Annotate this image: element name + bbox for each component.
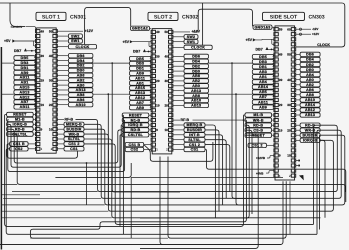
wire WR-B stub CN303: [296, 129, 301, 131]
label AB11 CN303 left: [252, 100, 273, 104]
svg-text:CN301: CN301: [70, 14, 86, 20]
wire AB4 stub CN303: [273, 80, 274, 82]
wire CN303 bottom pin drop: [289, 181, 291, 234]
wire DB6 stub CN301: [57, 55, 68, 57]
svg-text:DB5: DB5: [21, 56, 29, 60]
svg-text:CS1: CS1: [191, 148, 199, 152]
svg-text:40: 40: [287, 78, 291, 82]
wire bus tap x236: [236, 94, 270, 205]
svg-text:AB6: AB6: [306, 88, 314, 92]
wire AB12 stub CN303: [296, 109, 301, 111]
wire AB13 stub CN302: [173, 104, 184, 106]
label AB9 CN302 left: [130, 105, 152, 109]
wire SW1 stub CN302: [173, 41, 184, 43]
svg-text:AB11: AB11: [20, 76, 30, 80]
label AB13 CN302 right: [184, 89, 209, 93]
svg-text:DB4: DB4: [192, 60, 200, 64]
svg-text:SW2: SW2: [187, 35, 196, 39]
svg-text:AB13: AB13: [76, 88, 86, 92]
wire BUSDIR stub CN301: [57, 128, 64, 130]
label SW1 CN301: [68, 39, 82, 43]
wire AB0 stub CN303: [296, 79, 301, 81]
arrow marker CN303 bottom: [299, 175, 304, 180]
label DB2 CN303 right: [300, 62, 320, 66]
wire AB9 stub CN301: [34, 70, 35, 72]
junction DB7 CN302: [148, 51, 150, 53]
circle -12V CN303: [299, 28, 301, 30]
junction bus tap x236: [235, 93, 237, 95]
wire CS2 stub CN302: [144, 149, 152, 151]
wire +12V CN301: [57, 30, 83, 32]
wire DB6 stub CN303: [296, 54, 301, 56]
label CS1 2 CN301 right: [64, 142, 84, 146]
wire CN303 bottom pin drop2: [0, 181, 283, 244]
wire AB13 stub CN303: [296, 114, 301, 116]
svg-text:AB12: AB12: [135, 96, 145, 100]
wire AB14 stub CN303: [273, 85, 274, 87]
wire AB15 stub CN302: [150, 86, 151, 88]
label DB4 CN303 right: [300, 57, 320, 61]
svg-text:AB0: AB0: [192, 84, 200, 88]
svg-text:DB7: DB7: [14, 49, 21, 53]
wire AB0 stub CN302: [173, 85, 184, 87]
junction DB7 CN301: [31, 50, 33, 52]
svg-text:WR-B: WR-B: [253, 118, 264, 122]
svg-text:AB10: AB10: [305, 98, 315, 102]
wire CN302 INT drop: [205, 140, 226, 199]
wire AB0 stub CN301: [57, 84, 68, 86]
wire CN303 M1 drop: [244, 114, 246, 116]
wire AB10 stub CN303: [296, 99, 301, 101]
wire CN303 BUSDIR right drop: [319, 135, 322, 229]
svg-text:CS2: CS2: [131, 148, 139, 152]
label DB2 CN302 right: [184, 64, 209, 68]
wire CS1 B stub CN301: [28, 143, 35, 145]
wire BUSDIR stub CN303: [296, 134, 301, 136]
wire RD bus: [7, 129, 123, 163]
wire SOUNDIN to CN301: [26, 27, 36, 30]
label RESET CN303 left: [245, 133, 272, 137]
svg-text:AB7: AB7: [21, 100, 29, 104]
svg-text:DB4: DB4: [306, 58, 314, 62]
svg-text:50: 50: [49, 29, 53, 33]
wire bus tap x112: [112, 63, 180, 192]
wire CSLTSL bus: [7, 134, 346, 192]
label AB9 CN302 left: [130, 71, 152, 75]
svg-text:RESET: RESET: [13, 113, 27, 117]
label AB2 CN303 right: [300, 83, 320, 87]
svg-text:SW1: SW1: [187, 40, 196, 44]
wire bus tap x232: [232, 63, 280, 198]
header SLOT 2 CN302: [148, 12, 178, 20]
label DB4 CN301 right: [68, 58, 93, 62]
svg-text:SLTSL: SLTSL: [68, 137, 81, 141]
svg-text:59: 59: [279, 27, 283, 31]
svg-text:RD-B: RD-B: [131, 128, 141, 132]
label DB3 CN303 left: [252, 60, 273, 64]
wire AB8 stub CN302: [173, 75, 184, 77]
svg-text:SW2: SW2: [71, 34, 80, 38]
svg-text:AB2: AB2: [192, 79, 200, 83]
svg-text:1: 1: [156, 148, 158, 152]
label RD-B CN302 left: [122, 128, 149, 132]
svg-text:AB0: AB0: [306, 78, 314, 82]
svg-text:CS1 B: CS1 B: [13, 142, 25, 146]
svg-text:AB13: AB13: [135, 91, 145, 95]
svg-text:AB2: AB2: [77, 78, 85, 82]
wire DB2 stub CN303: [296, 64, 301, 66]
svg-text:IORQ-B: IORQ-B: [13, 123, 28, 127]
wire vert x131 down: [130, 177, 132, 238]
svg-text:+5VB: +5VB: [256, 171, 263, 175]
svg-text:+5V: +5V: [246, 38, 253, 42]
svg-text:AB13: AB13: [19, 90, 29, 94]
svg-text:2: 2: [166, 148, 168, 152]
svg-text:AB9: AB9: [259, 105, 267, 109]
label SW2 CN301: [68, 34, 82, 38]
header SLOT 1 CN301: [36, 12, 66, 20]
svg-text:CS1 2: CS1 2: [252, 144, 263, 148]
junction x86 on 163: [86, 162, 88, 164]
wire bus link mid y63: [93, 62, 130, 64]
wire WAIT bus: [84, 124, 341, 198]
label AB6 CN303 right: [300, 88, 320, 92]
wire WR-B stub CN303: [272, 119, 274, 121]
wire M1-B stub CN303: [272, 114, 274, 116]
label DB2 CN301 right: [68, 63, 93, 67]
wire DB6 stub CN302: [173, 55, 184, 57]
wire CS-B stub CN303: [272, 129, 274, 131]
label M1-B CN302 left: [122, 118, 149, 122]
svg-text:AB9: AB9: [136, 106, 144, 110]
label AB8 CN302 right: [184, 74, 209, 78]
label CS1 B CN301 left: [10, 142, 29, 146]
arrow +5V CN303: [253, 38, 256, 41]
wire bus h191 left: [12, 191, 98, 193]
label MERQ-B CN302 right: [184, 123, 205, 127]
svg-text:DB7: DB7: [256, 48, 263, 52]
wire DB0 stub CN303: [296, 69, 301, 71]
svg-text:AB9: AB9: [21, 71, 29, 75]
wire +12V CN302: [173, 31, 190, 33]
label AB8 CN301 right: [68, 93, 93, 97]
wire WR-B stub CN301: [57, 133, 64, 135]
label AB11 CN302 left: [130, 76, 152, 80]
label IORQ-B CN301 left: [7, 122, 34, 126]
junction bus tap x232: [231, 62, 233, 64]
svg-text:+5V: +5V: [123, 40, 130, 44]
wire CS1 2 stub CN302: [173, 144, 184, 146]
wire DB5 stub CN302: [150, 56, 151, 58]
label RD-B CN303 right: [300, 123, 320, 127]
wire below CN302 v2: [168, 157, 286, 239]
svg-text:AB8: AB8: [192, 74, 200, 78]
svg-text:2: 2: [289, 174, 291, 178]
wire bus link left y94: [1, 93, 14, 95]
arrow DB7 CN303: [265, 47, 268, 50]
wire AB13 stub CN301: [57, 89, 68, 91]
wire +12VB to CN303: [267, 155, 274, 158]
label M1-B CN303 left: [245, 113, 272, 117]
svg-text:RD-B: RD-B: [15, 127, 25, 131]
wire AB9 stub CN302: [150, 105, 151, 107]
wire CLOCK stub CN301: [57, 46, 68, 48]
wire AB13 stub CN302: [150, 91, 151, 93]
svg-text:39: 39: [156, 55, 160, 59]
svg-text:AB1: AB1: [136, 81, 144, 85]
wire AB2 stub CN303: [296, 84, 301, 86]
svg-text:CS2: CS2: [15, 147, 23, 151]
label RD-B CN303 left: [245, 123, 272, 127]
wire DB5 stub CN303: [273, 55, 274, 57]
label AB4 CN303 left: [252, 80, 273, 84]
svg-text:DB2: DB2: [306, 63, 314, 67]
label DB5 CN302 left: [130, 56, 152, 60]
wire CN303 IORQ right drop: [320, 140, 325, 218]
svg-text:40: 40: [49, 54, 53, 58]
junction bus tap x112: [111, 62, 113, 64]
wire bus h244 left: [0, 244, 160, 246]
wire MERQ-B stub CN301: [57, 123, 64, 125]
wire bus h191 left2: [1, 194, 40, 196]
label AB13 CN301 left: [14, 90, 36, 94]
label AB15 CN302 left: [130, 86, 152, 90]
svg-text:CN302: CN302: [182, 14, 198, 20]
label AB11 CN301 left: [14, 105, 36, 109]
wire WR bus: [84, 134, 333, 211]
wire RD-B stub CN301: [33, 128, 35, 130]
svg-text:DB1: DB1: [259, 65, 267, 69]
label BUSDIR CN301 right: [64, 127, 84, 131]
wire DB4 stub CN303: [296, 59, 301, 61]
wire CN303 RD drop: [140, 125, 249, 218]
svg-text:SLTSL: SLTSL: [188, 138, 201, 142]
svg-text:AB1: AB1: [259, 75, 267, 79]
svg-text:SIDE SLOT: SIDE SLOT: [270, 14, 298, 20]
svg-text:CSLTSL: CSLTSL: [128, 133, 144, 137]
svg-text:DB3: DB3: [259, 60, 267, 64]
wire DB4 stub CN302: [173, 60, 184, 62]
wire RESET stub CN302: [149, 114, 151, 116]
svg-text:+12V: +12V: [312, 32, 319, 36]
wire RESET stub CN303: [272, 134, 274, 136]
wire AB10 stub CN302: [173, 100, 184, 102]
label SLTSL CN301 right: [64, 137, 84, 141]
wire DB2 stub CN302: [173, 65, 184, 67]
label AB4 CN303 right: [300, 72, 320, 76]
arrow +5V CN301: [12, 39, 15, 42]
svg-text:9: 9: [156, 128, 158, 132]
label CS-B CN303 left: [245, 128, 272, 132]
svg-text:19: 19: [41, 103, 45, 107]
svg-text:SW1: SW1: [71, 39, 80, 43]
wire RF-B stub CN301: [57, 118, 64, 120]
label AB2 CN301 right: [68, 78, 93, 82]
label AB15 CN301 left: [14, 85, 36, 89]
wire top bus soundin: [0, 3, 345, 47]
svg-text:DB3: DB3: [136, 62, 144, 66]
svg-text:AB15: AB15: [19, 86, 29, 90]
wire bus link mid y94: [93, 93, 130, 95]
wire SLTSL drop: [84, 144, 314, 225]
wire AB3 stub CN303: [273, 70, 274, 72]
label SW1 CN302: [184, 40, 198, 44]
label AB0 CN301 right: [68, 83, 93, 87]
svg-text:AB12: AB12: [305, 108, 315, 112]
svg-text:AB11: AB11: [258, 100, 268, 104]
wire AB5 stub CN303: [273, 90, 274, 92]
label DB5 CN303 left: [252, 55, 273, 59]
wire RESET bus: [5, 115, 245, 227]
svg-text:MERQ-B: MERQ-B: [66, 123, 82, 127]
wire AB9 stub CN303: [273, 105, 274, 107]
wire bus tap x108: [108, 94, 160, 205]
svg-text:CS1 2: CS1 2: [68, 142, 79, 146]
wire INT-B stub CN302: [173, 134, 184, 136]
connector CN301: [37, 28, 57, 153]
label CS1 2 CN302 right: [184, 142, 205, 146]
label AB7 CN301 left: [14, 100, 36, 104]
wire CS1 stub CN302: [173, 149, 184, 151]
label CS2 CN301 left: [10, 147, 29, 151]
wire GND1+3 to CN303: [272, 26, 274, 28]
label AB10 CN303 right: [300, 98, 320, 102]
svg-text:IORQ-B: IORQ-B: [303, 139, 318, 143]
label CS2 CN302 left: [125, 147, 144, 151]
svg-text:INT-B: INT-B: [189, 133, 200, 137]
svg-text:GND1&3: GND1&3: [254, 25, 270, 29]
label RESET CN302 left: [122, 113, 149, 117]
wire CSLTSL stub CN302: [149, 134, 151, 136]
junction DB7 CN303: [271, 49, 273, 51]
label M1-B CN301 left: [7, 117, 34, 121]
svg-text:AB4: AB4: [306, 73, 314, 77]
label AB13 CN302 left: [130, 91, 152, 95]
label DB6 CN303 right: [300, 52, 320, 56]
wire AB6 stub CN301: [57, 99, 68, 101]
wire AB4 stub CN303: [296, 74, 301, 76]
svg-text:AB2: AB2: [306, 83, 314, 87]
wire +5V to CN303: [256, 38, 275, 41]
label DB3 CN301 left: [14, 61, 36, 65]
wire DB3 stub CN301: [34, 61, 35, 63]
wire +5V join CN303: [272, 39, 274, 44]
svg-text:WR-B: WR-B: [305, 128, 316, 132]
label AB8 CN302 right: [184, 93, 209, 97]
label DB1 CN303 left: [252, 65, 273, 69]
label AB1 CN301 left: [14, 80, 36, 84]
svg-text:CLOCK: CLOCK: [317, 43, 330, 47]
svg-text:RESET: RESET: [129, 113, 143, 117]
label GND1+3 CN303: [253, 25, 272, 29]
wire AB11 stub CN301: [34, 75, 35, 77]
wire CN302 CSLTSL drop: [120, 135, 122, 227]
label DB0 CN302 right: [184, 69, 209, 73]
svg-text:30: 30: [287, 103, 291, 107]
wire DB2 stub CN301: [57, 65, 68, 67]
wire IORQ bus: [7, 124, 123, 167]
label WR-B CN301 right: [64, 132, 84, 136]
label AB0 CN302 right: [184, 84, 209, 88]
svg-text:AB10: AB10: [191, 99, 201, 103]
svg-text:RF-B: RF-B: [65, 118, 74, 122]
label AB10 CN301 right: [68, 103, 93, 107]
svg-text:AB8: AB8: [77, 93, 85, 97]
svg-text:MERQ-B: MERQ-B: [186, 123, 202, 127]
wire CLOCK stub CN302: [173, 46, 184, 48]
label SLTSL CN302 right: [184, 138, 205, 142]
label WR-B CN303 right: [300, 128, 320, 132]
wire AB11 stub CN303: [273, 100, 274, 102]
svg-text:RD-B: RD-B: [253, 123, 263, 127]
label AB9 CN303 left: [252, 105, 273, 109]
svg-text:CLOCK: CLOCK: [191, 46, 205, 50]
wire CS1 2 stub CN301: [57, 143, 64, 145]
label DB0 CN303 right: [300, 67, 320, 71]
svg-text:AB8: AB8: [192, 94, 200, 98]
label AB7 CN303 left: [252, 95, 273, 99]
wire AB9 stub CN302: [150, 71, 151, 73]
label DB0 CN301 right: [68, 68, 93, 72]
wire CS1 stub CN301: [57, 148, 64, 150]
wire AB11 stub CN302: [150, 76, 151, 78]
wire CN302 SLTSL drop: [205, 145, 230, 192]
label AB13 CN302 right: [184, 103, 209, 107]
label CSLTSL CN301 left: [7, 132, 34, 136]
wire DB1 stub CN303: [273, 65, 274, 67]
wire CS1 2 stub CN303: [267, 144, 275, 146]
svg-text:AB8: AB8: [306, 93, 314, 97]
label BUSDIR CN303 right: [300, 133, 320, 137]
label AB8 CN301 right: [68, 73, 93, 77]
svg-text:DB6: DB6: [306, 53, 314, 57]
wire BUSDIR stub CN302: [173, 129, 184, 131]
wire AB11 stub CN301: [34, 105, 35, 107]
label AB14 CN303 left: [252, 85, 273, 89]
wire +5V to CN302: [133, 41, 152, 43]
svg-text:AB14: AB14: [305, 103, 315, 107]
svg-text:M1-B: M1-B: [253, 113, 263, 117]
svg-text:AB0: AB0: [77, 83, 85, 87]
wire CN302 RESET drop: [122, 115, 123, 234]
svg-text:M1-B: M1-B: [131, 118, 141, 122]
svg-text:BUSDIR: BUSDIR: [187, 128, 202, 132]
svg-text:CS1 2: CS1 2: [189, 143, 200, 147]
wire AB7 stub CN302: [150, 101, 151, 103]
svg-text:BUSDIR: BUSDIR: [302, 133, 317, 137]
wire DB7 to CN302: [146, 51, 151, 53]
wire BUSDIR bus: [84, 139, 320, 218]
label AB8 CN303 right: [300, 93, 320, 97]
wire CN303 WR right drop: [317, 130, 320, 234]
label CSLTSL CN302 left: [122, 133, 149, 137]
svg-text:AB12: AB12: [19, 95, 29, 99]
wire AB2 stub CN302: [173, 80, 184, 82]
wire AB8 stub CN301: [57, 74, 68, 76]
wire +5V to CN301: [15, 40, 36, 42]
wire AB6 stub CN303: [296, 89, 301, 91]
svg-text:49: 49: [41, 29, 45, 33]
wire bus h184 left: [1, 183, 17, 185]
label AB12 CN302 left: [130, 96, 152, 100]
label AB2 CN302 right: [184, 79, 209, 83]
wire +5V join CN302: [149, 42, 151, 47]
wire SW2 stub CN302: [173, 36, 184, 38]
wire RF-B CN302 to bus: [193, 119, 244, 121]
svg-text:AB11: AB11: [20, 105, 30, 109]
svg-text:10: 10: [287, 154, 291, 158]
wire DB1 stub CN301: [34, 66, 35, 68]
